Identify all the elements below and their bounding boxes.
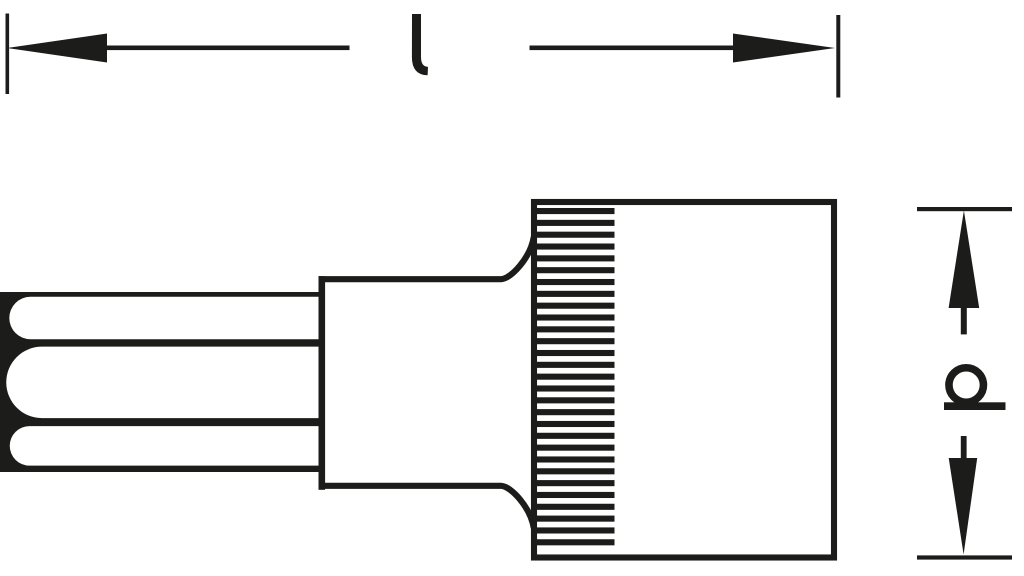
label l xyxy=(412,14,428,75)
bit facet 2 (middle face, white) xyxy=(6,347,318,419)
label d (rotated): bowl ring xyxy=(949,368,984,403)
dimension d: upper arrowhead xyxy=(949,211,980,309)
bit facet 1 (top face, white) xyxy=(9,297,318,339)
holder section bottom edge with flare curve xyxy=(319,486,534,528)
label d (rotated): stem bar xyxy=(944,402,1006,410)
hex bit black base xyxy=(0,292,322,472)
holder section left edge xyxy=(319,276,326,490)
dimension l: left arrowhead xyxy=(7,34,107,63)
bit facet 3 (bottom face, white) xyxy=(10,426,319,466)
dimension d: lower arrowhead xyxy=(949,458,978,555)
dimension l: left line segment xyxy=(100,46,350,51)
dimension d: upper arrow tail xyxy=(961,306,967,334)
dimension l: right extension line xyxy=(836,15,840,98)
dimension l: right arrowhead xyxy=(733,34,835,63)
dimension l: right line segment xyxy=(530,46,735,51)
socket body outline xyxy=(534,202,834,558)
dimension l: left extension line xyxy=(6,14,10,95)
knurl bars xyxy=(537,208,615,545)
holder section top edge with flare curve xyxy=(319,237,534,279)
dimension d: bottom extension tick xyxy=(917,555,1012,559)
dimension d: lower arrow tail xyxy=(961,436,967,460)
dimension d: top extension tick xyxy=(917,207,1012,211)
